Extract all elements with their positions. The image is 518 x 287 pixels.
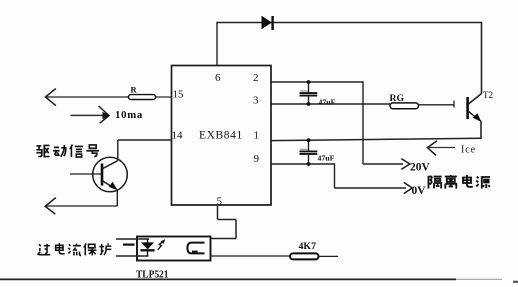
wire 4K7 right (319, 255, 339, 257)
svg-text:20V: 20V (410, 162, 431, 174)
svg-text:EXB841: EXB841 (199, 130, 243, 142)
scan artifact bottom rule (0, 278, 456, 280)
svg-text:9: 9 (254, 153, 260, 165)
wire RG to T2 base (419, 101, 455, 108)
wire 20V branch (363, 81, 403, 164)
arrow 0V (404, 182, 413, 193)
wire Q1 base (70, 173, 102, 175)
wire R to pin15 (156, 96, 172, 98)
wire Q1 emitter down (116, 190, 118, 207)
wire opto anode (116, 238, 149, 240)
annotation arrow Ice (427, 141, 455, 156)
wire pin3 to RG (271, 103, 390, 105)
resistor R2 4K7 (290, 253, 319, 259)
svg-text:47uF: 47uF (319, 98, 336, 107)
capacitor C1 47uF (300, 80, 318, 106)
arrow 20V (401, 159, 410, 170)
svg-text:15: 15 (173, 89, 185, 101)
svg-text:10ma: 10ma (115, 109, 143, 121)
svg-text:6: 6 (215, 72, 221, 84)
svg-text:T2: T2 (483, 90, 493, 100)
svg-text:4K7: 4K7 (299, 242, 317, 252)
wire pin2 (271, 81, 363, 83)
wire 0V branch (335, 163, 407, 188)
wire pin5 to optocoupler (211, 205, 236, 239)
wire top horizontal (216, 22, 481, 24)
label 过电流保护 dash (123, 244, 135, 246)
svg-text:R: R (131, 85, 138, 95)
wire top right vertical to T2 collector (481, 22, 483, 94)
text 过电流保护 (37, 243, 111, 256)
wire input to R (47, 96, 129, 98)
arrow input left (45, 89, 55, 106)
LED D2 inside opto (140, 239, 154, 256)
IC U1 EXB841 box (172, 66, 272, 206)
annotation arrow 10ma (71, 106, 110, 123)
svg-text:1: 1 (254, 130, 260, 142)
wire Q1 collector to pin14 (118, 140, 172, 161)
transistor T2 (468, 94, 482, 139)
arrow output left (45, 198, 56, 215)
resistor R (129, 95, 156, 100)
wire opto to 4K7 (211, 255, 291, 257)
capacitor C2 47uF (300, 138, 318, 166)
svg-text:14: 14 (172, 130, 184, 142)
svg-text:47uF: 47uF (318, 154, 335, 163)
optocoupler U2 TLP521 box (137, 237, 211, 261)
wire pin9 (271, 163, 335, 165)
phototransistor inside opto (187, 243, 204, 254)
resistor RG (390, 103, 419, 109)
wire output bottom-left (47, 205, 118, 207)
scan artifact bottom right mark (513, 281, 518, 283)
svg-text:2: 2 (253, 72, 259, 84)
opto light arrow (158, 239, 166, 250)
transistor Q1 drive (93, 157, 128, 192)
wire opto cathode (116, 255, 149, 257)
svg-text:0V: 0V (412, 185, 427, 197)
wire pin6 up (216, 23, 218, 66)
text 驱动信号 (36, 144, 99, 157)
svg-text:3: 3 (253, 95, 259, 107)
svg-text:Ice: Ice (461, 145, 476, 156)
text 隔离电源 (429, 175, 491, 189)
wire pin1 (emitter line) (271, 138, 482, 140)
diode D1 (262, 16, 273, 30)
